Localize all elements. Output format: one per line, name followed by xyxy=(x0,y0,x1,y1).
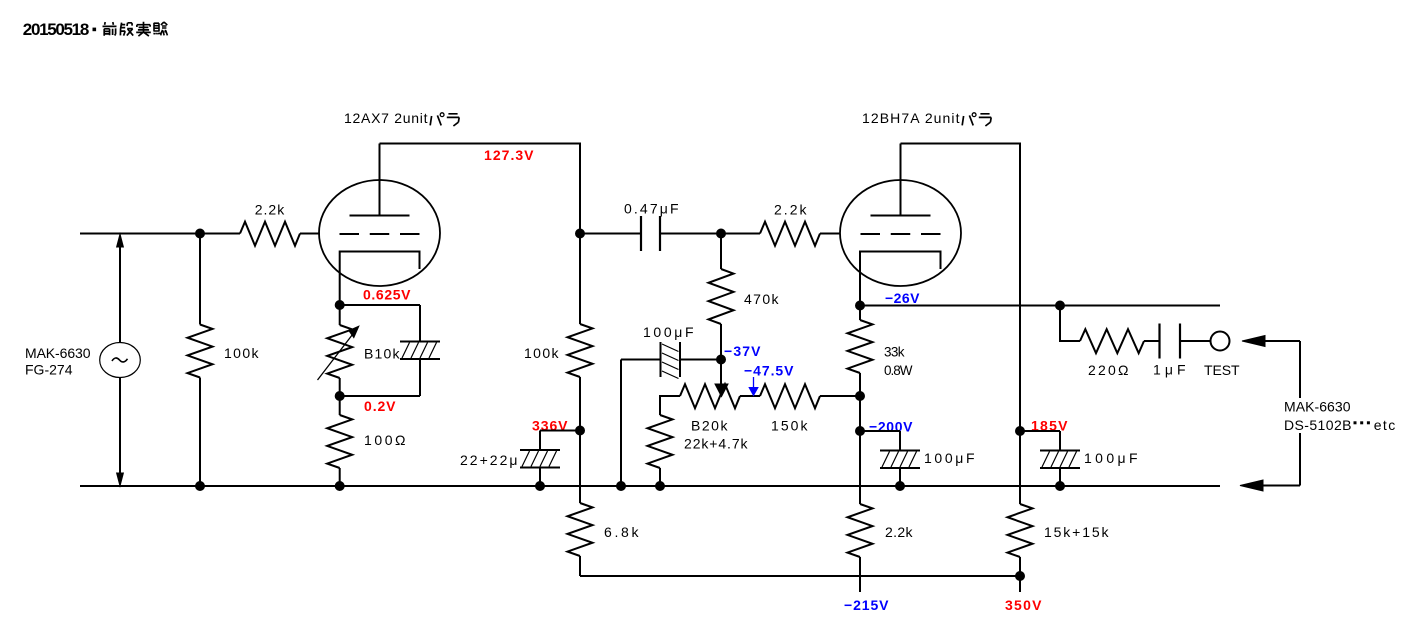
wire cathode top rail xyxy=(340,304,420,306)
junction 185V node xyxy=(1015,426,1025,436)
svg-text:2.2k: 2.2k xyxy=(774,202,808,218)
junction 350V node xyxy=(1015,571,1025,581)
resistor 2.2k grid stopper V1 xyxy=(240,222,300,246)
tube V2 12BH7A envelope xyxy=(840,180,961,286)
junction plate node xyxy=(575,229,585,239)
wire 150k to cathode node V2 xyxy=(820,395,860,397)
title middle dot xyxy=(93,28,97,32)
tube V2 cathode xyxy=(860,252,941,306)
source circle AC generator xyxy=(100,343,141,378)
wire V1 plate to B+ node xyxy=(380,144,581,234)
junction grid node V2 xyxy=(716,229,726,239)
tube V1 grid dashed xyxy=(340,233,421,235)
svg-text:0.8W: 0.8W xyxy=(884,363,913,378)
svg-text:−200V: −200V xyxy=(869,419,913,435)
junction -37V node xyxy=(716,355,726,365)
resistor 15k+15k xyxy=(1008,504,1033,557)
resistor 150k xyxy=(760,384,820,408)
capacitor 22+22u decoupling xyxy=(540,430,580,432)
junction -26V cathode node xyxy=(855,301,865,311)
resistor 470k grid leak V2 xyxy=(720,234,722,270)
svg-text:100k: 100k xyxy=(524,345,560,361)
resistor 220 ohm xyxy=(1080,329,1144,353)
junction 336V node xyxy=(575,426,585,436)
svg-text:B10k: B10k xyxy=(364,346,401,362)
wire input to tube V1 grid xyxy=(300,233,320,235)
scope connection arrow bottom xyxy=(1262,485,1300,487)
wire TEST branch down xyxy=(1060,306,1080,342)
signal source MAK-6630 FG-274 dimension line xyxy=(119,240,121,343)
tube V1 plate xyxy=(350,215,410,217)
junction -200V node xyxy=(855,426,865,436)
svg-text:−26V: −26V xyxy=(885,290,920,306)
capacitor 1uF TEST xyxy=(1158,324,1160,359)
wire 2.2k to tube V2 grid xyxy=(820,233,841,235)
source sine symbol xyxy=(112,358,128,362)
svg-text:12BH7A 2unit: 12BH7A 2unit xyxy=(862,110,960,126)
wire 220 ohm to 1uF xyxy=(1144,340,1160,342)
svg-text:150k: 150k xyxy=(771,418,809,434)
svg-text:TEST: TEST xyxy=(1204,362,1240,378)
capacitor 100uF at 185V xyxy=(1020,430,1060,432)
svg-text:1μF: 1μF xyxy=(1153,362,1186,378)
resistor 100k plate load V1 xyxy=(579,234,581,325)
svg-text:470k: 470k xyxy=(744,291,780,307)
svg-text:MAK-6630: MAK-6630 xyxy=(25,345,91,361)
tube V2 plate xyxy=(871,215,931,217)
wire pot wiper xyxy=(720,360,722,386)
wire input top rail xyxy=(80,233,240,235)
wire cathode V2 rail to TEST branch xyxy=(860,305,1220,307)
junction cathode top xyxy=(335,300,345,310)
junction 100 ohm ground xyxy=(335,481,345,491)
svg-text:DS-5102B: DS-5102B xyxy=(1284,417,1352,433)
svg-text:100μF: 100μF xyxy=(1084,450,1138,466)
svg-text:220Ω: 220Ω xyxy=(1088,362,1129,378)
resistor 33k cathode V2 xyxy=(859,306,861,321)
wire bias cap left leg xyxy=(620,360,622,487)
capacitor 0.47uF coupling xyxy=(640,216,642,251)
scope connection bracket xyxy=(1299,341,1301,398)
junction 100uF ground xyxy=(895,481,905,491)
svg-text:33k: 33k xyxy=(884,345,905,360)
junction 22+22u ground xyxy=(535,481,545,491)
potentiometer B20k xyxy=(680,384,740,408)
svg-text:100Ω: 100Ω xyxy=(364,432,406,448)
svg-text:etc: etc xyxy=(1374,417,1396,433)
wire 336V node down through ground to 6.8k xyxy=(579,431,581,504)
tube V1 12AX7 envelope xyxy=(319,180,440,286)
pot wiper arrow xyxy=(715,384,728,397)
wire 6.8k bottom to 350V node xyxy=(580,575,1020,577)
svg-text:100μF: 100μF xyxy=(924,450,975,466)
svg-text:100k: 100k xyxy=(224,345,260,361)
svg-text:2.2k: 2.2k xyxy=(255,201,286,217)
svg-text:MAK-6630: MAK-6630 xyxy=(1284,399,1351,415)
wire plate node to coupling cap xyxy=(580,233,641,235)
wire pot to 150k xyxy=(740,395,760,397)
svg-text:22k+4.7k: 22k+4.7k xyxy=(684,436,749,452)
resistor 2.2k grid stopper V2 xyxy=(760,222,820,246)
label katakana para V1 xyxy=(430,115,441,125)
resistor 100k input grid leak xyxy=(199,234,201,325)
wire 350V stub xyxy=(1019,576,1021,592)
svg-text:6.8k: 6.8k xyxy=(604,524,640,540)
junction 100uF 185V ground xyxy=(1055,481,1065,491)
junction TEST branch xyxy=(1055,301,1065,311)
scope connection arrow top xyxy=(1242,336,1265,347)
svg-text:15k+15k: 15k+15k xyxy=(1044,524,1110,540)
wire pot left end down xyxy=(660,396,680,415)
resistor 6.8k to 350V divider xyxy=(568,503,593,556)
svg-text:−47.5V: −47.5V xyxy=(744,363,794,379)
capacitor cathode bypass V1 xyxy=(419,305,421,342)
svg-text:2.2k: 2.2k xyxy=(885,524,914,540)
capacitor 100uF bias xyxy=(660,342,662,377)
wire 1uF to TEST terminal xyxy=(1180,340,1211,342)
svg-text:B20k: B20k xyxy=(691,418,729,434)
svg-text:100μF: 100μF xyxy=(643,324,694,340)
svg-text:0.47μF: 0.47μF xyxy=(624,201,679,217)
junction 22k+4.7k ground xyxy=(655,481,665,491)
tube V1 cathode xyxy=(340,252,420,305)
svg-text:127.3V: 127.3V xyxy=(484,147,534,163)
junction 100k bottom ground xyxy=(195,481,205,491)
svg-text:350V: 350V xyxy=(1005,597,1042,613)
svg-text:12AX7 2unit: 12AX7 2unit xyxy=(344,110,428,126)
junction cathode divider node xyxy=(855,391,865,401)
tube V2 grid dashed xyxy=(861,233,942,235)
junction bias cap ground xyxy=(616,481,626,491)
resistor 100 ohm cathode xyxy=(339,396,341,415)
title kanji 前段実験 xyxy=(103,22,117,36)
capacitor 100uF at -200V xyxy=(860,430,900,432)
wire coupling cap to grid node xyxy=(660,233,721,235)
resistor 22k+4.7k lower divider xyxy=(648,415,673,468)
label katakana para V2 xyxy=(962,115,973,125)
probe arrow -47.5V xyxy=(753,377,755,388)
wire grid node to 2.2k V2 xyxy=(721,233,760,235)
junction cathode bottom xyxy=(335,391,345,401)
variable resistor B10k xyxy=(339,305,341,325)
wire bias cap to -37V node xyxy=(621,359,661,361)
svg-text:FG-274: FG-274 xyxy=(25,362,73,378)
svg-text:0.625V: 0.625V xyxy=(363,287,411,303)
svg-text:−37V: −37V xyxy=(724,343,761,359)
resistor 2.2k to -215V xyxy=(848,504,873,557)
variable resistor arrow xyxy=(318,335,353,381)
svg-text:0.2V: 0.2V xyxy=(364,398,396,414)
wire ground rail xyxy=(80,485,1220,487)
junction input/100k top xyxy=(195,229,205,239)
svg-text:20150518: 20150518 xyxy=(23,20,90,39)
TEST terminal circle xyxy=(1211,332,1230,351)
svg-text:−215V: −215V xyxy=(844,597,889,613)
wire V2 plate to 350V rail upper part xyxy=(901,144,1021,505)
wire cathode bottom rail xyxy=(340,395,420,397)
